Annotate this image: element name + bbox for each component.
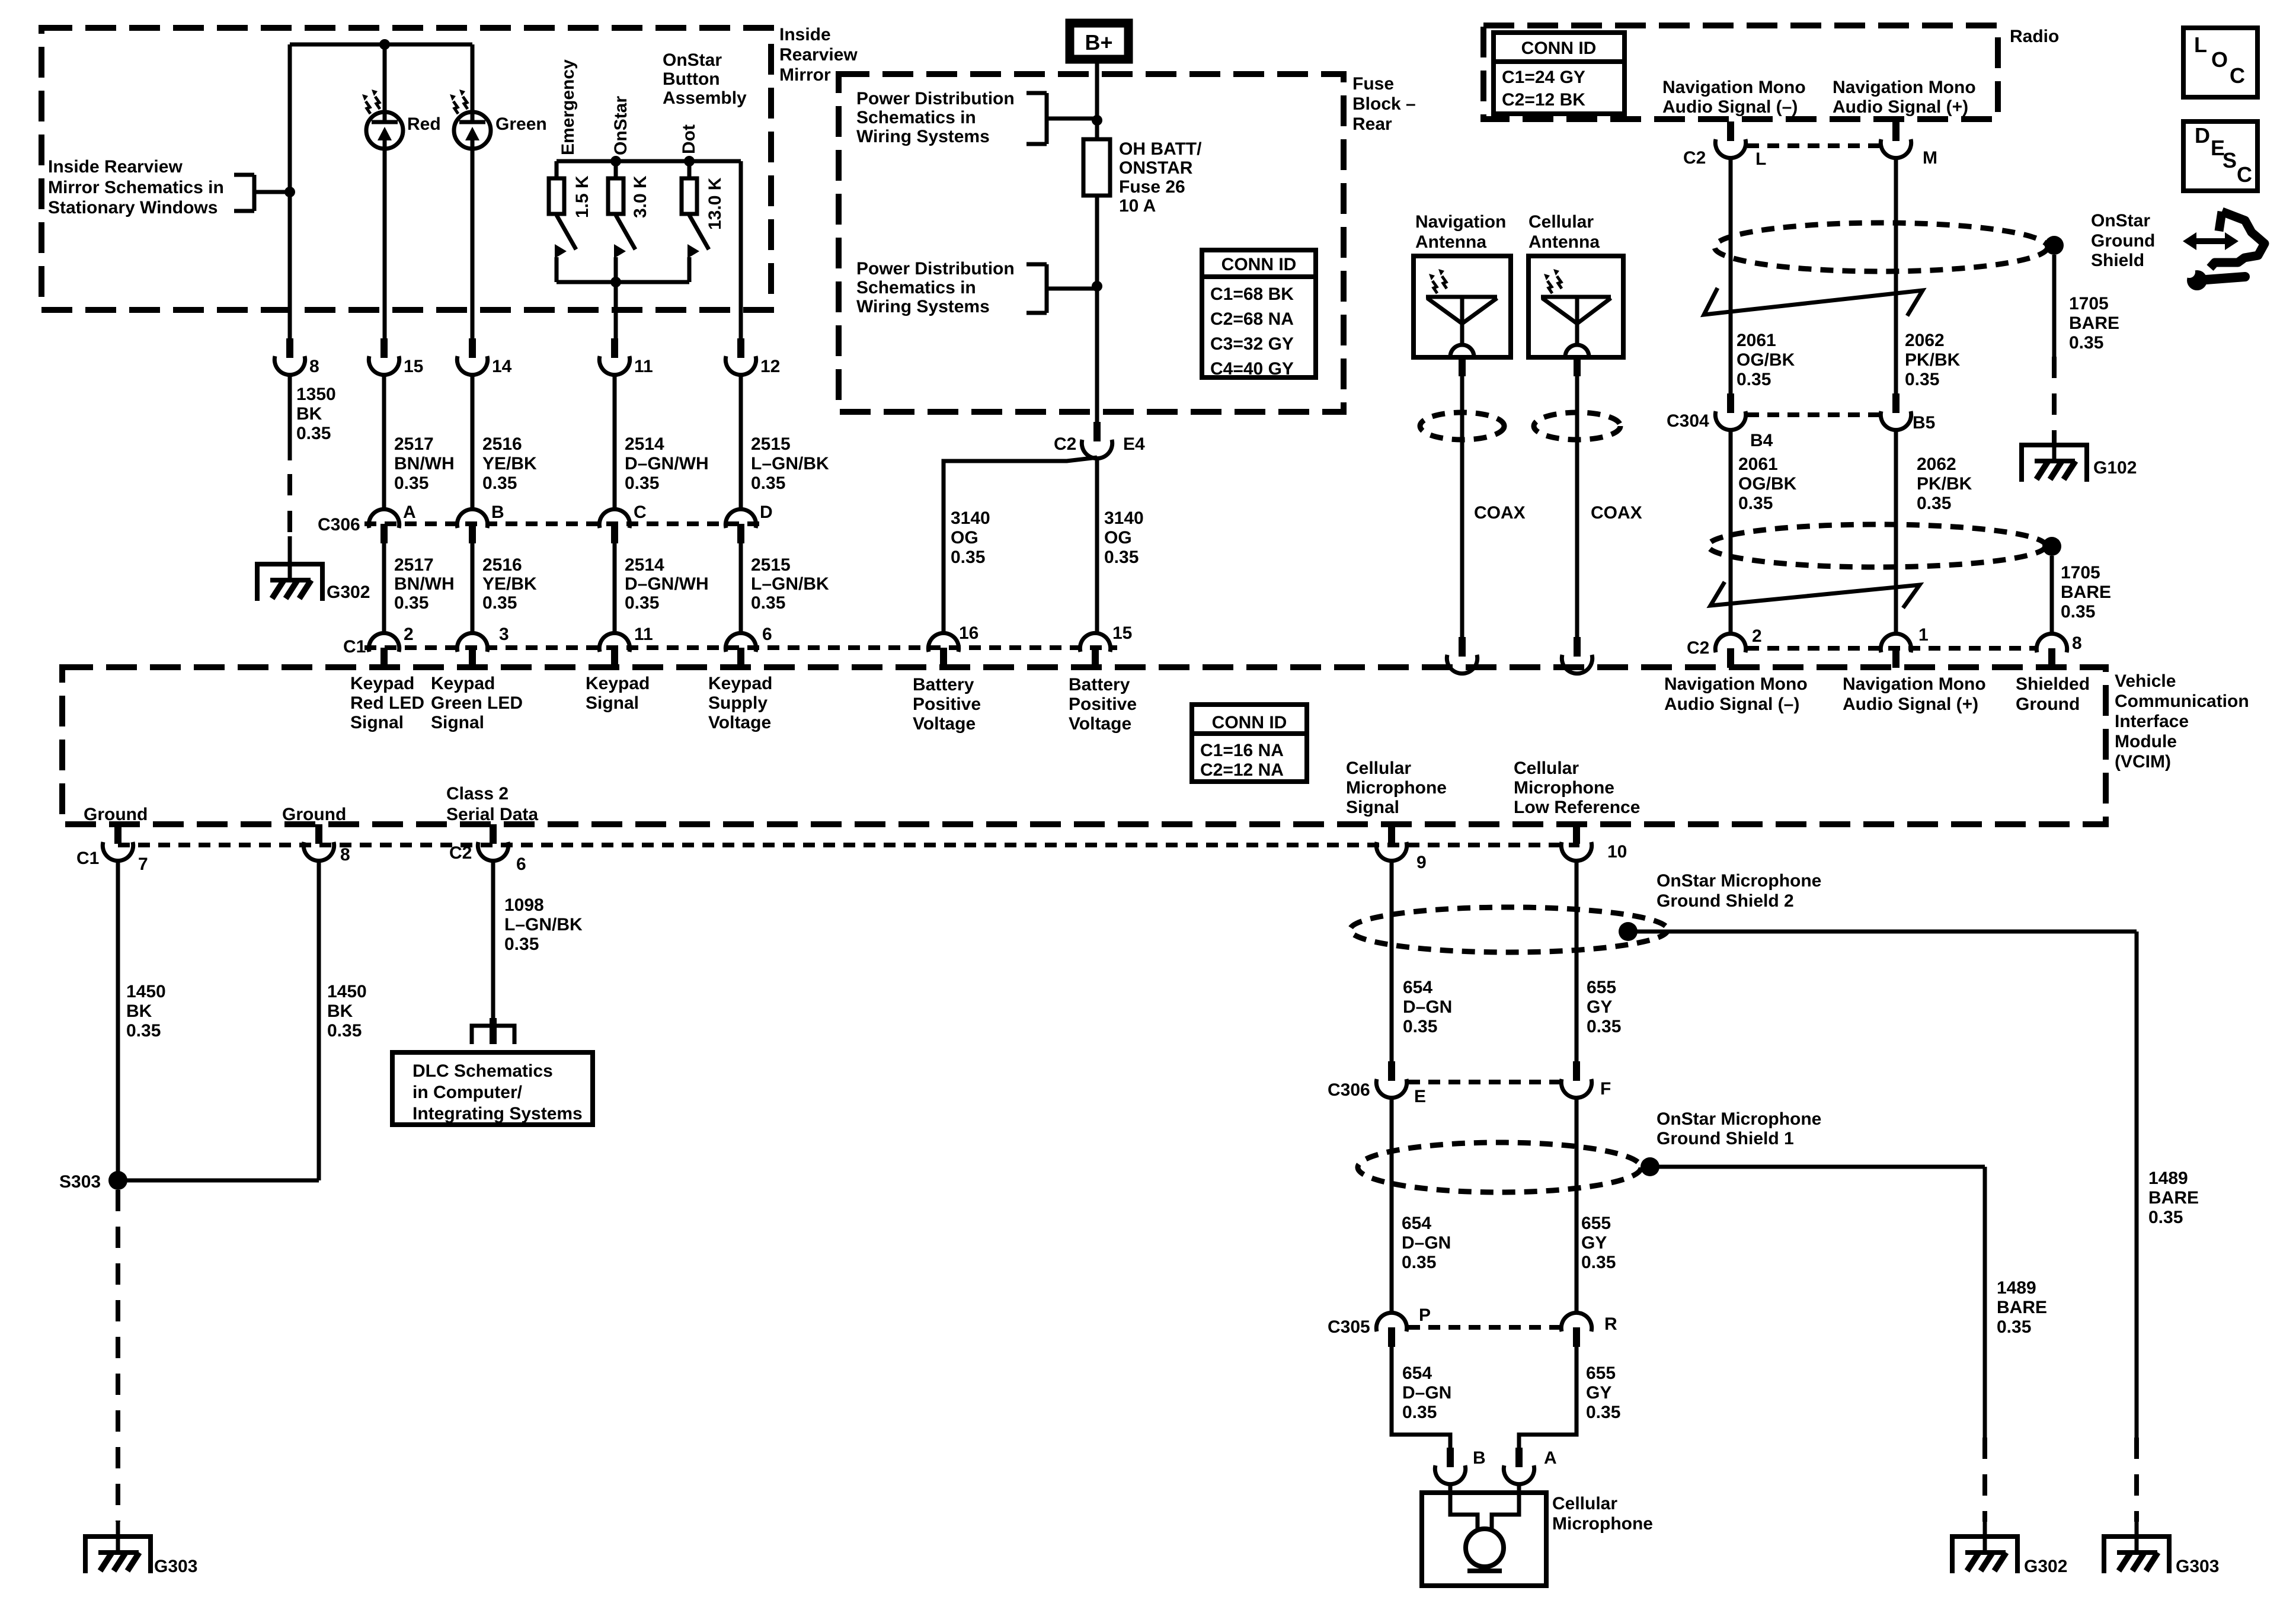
svg-text:L–GN/BK: L–GN/BK [504, 915, 583, 934]
wire: keypad signal return (to pin 8) [288, 44, 292, 338]
svg-text:654: 654 [1402, 1363, 1432, 1383]
svg-text:Ground: Ground [282, 805, 346, 824]
table: CONN ID (fuse block) [1202, 250, 1316, 377]
svg-text:Audio Signal (+): Audio Signal (+) [1843, 694, 1978, 714]
svg-text:BN/WH: BN/WH [394, 574, 455, 594]
svg-text:COAX: COAX [1591, 503, 1642, 523]
svg-text:Vehicle: Vehicle [2115, 671, 2176, 691]
twisted pair symbol (upper) [1704, 288, 1923, 316]
icon: antenna rays (nav) [1429, 269, 1447, 293]
terminal: cell antenna output [1574, 357, 1581, 376]
node: junction below fuse [1092, 281, 1102, 292]
svg-text:0.35: 0.35 [327, 1021, 362, 1041]
svg-text:Assembly: Assembly [663, 88, 747, 108]
svg-text:Ground: Ground [2091, 231, 2155, 251]
svg-text:BK: BK [327, 1001, 353, 1021]
wire 654 D-GN (C306 E to C305 P) [1390, 1098, 1394, 1313]
svg-text:O: O [2211, 47, 2228, 72]
svg-text:Power Distribution: Power Distribution [856, 89, 1015, 108]
svg-text:C: C [2237, 162, 2252, 187]
wire 1098 L-GN/BK (class 2 serial data) [491, 862, 495, 1019]
box: Radio (dashed) [1483, 25, 1998, 119]
wire 655 GY (pin 10 to C306 F) [1575, 861, 1579, 1061]
svg-text:OH BATT/: OH BATT/ [1119, 139, 1202, 159]
svg-text:Shielded: Shielded [2016, 674, 2090, 694]
svg-text:0.35: 0.35 [1581, 1253, 1616, 1272]
svg-text:OG: OG [1104, 528, 1132, 548]
svg-text:1705: 1705 [2069, 294, 2109, 313]
svg-text:Cellular: Cellular [1514, 758, 1579, 778]
svg-text:2515: 2515 [751, 555, 791, 575]
svg-text:0.35: 0.35 [2061, 602, 2095, 622]
svg-text:P: P [1419, 1305, 1431, 1325]
svg-text:2514: 2514 [625, 555, 664, 575]
svg-text:Signal: Signal [1346, 798, 1399, 817]
svg-text:Navigation: Navigation [1415, 212, 1506, 232]
svg-text:3140: 3140 [1104, 508, 1144, 528]
svg-text:BK: BK [296, 404, 322, 424]
svg-text:OnStar Microphone: OnStar Microphone [1657, 871, 1821, 891]
node: shield drain junction (upper) [2045, 236, 2064, 255]
pin B of cellular microphone [1435, 1448, 1465, 1484]
wire 655 GY to microphone pin A [1519, 1347, 1576, 1448]
connector C306 (E,F) dashed line [1408, 1080, 1560, 1084]
svg-text:2514: 2514 [625, 434, 664, 454]
pin 6 below VCIM [478, 824, 508, 861]
svg-text:655: 655 [1581, 1214, 1611, 1233]
antenna: Cellular Antenna box [1528, 256, 1623, 357]
svg-text:Navigation Mono: Navigation Mono [1843, 674, 1986, 694]
wire 1705 BARE drain (dashed) [2052, 357, 2057, 443]
svg-text:Navigation Mono: Navigation Mono [1664, 674, 1808, 694]
svg-text:G102: G102 [2093, 458, 2137, 478]
svg-text:1489: 1489 [1997, 1278, 2036, 1298]
svg-text:Ground Shield 1: Ground Shield 1 [1657, 1129, 1794, 1148]
ground G303 (right) [2104, 1537, 2169, 1573]
svg-text:L: L [1755, 149, 1766, 169]
svg-text:1450: 1450 [327, 982, 367, 1001]
svg-text:C2: C2 [449, 843, 472, 863]
wire segment C306 to VCIM C1 [613, 543, 617, 633]
wire: green LED branch upper [471, 44, 475, 123]
power symbol B+ [1070, 23, 1128, 59]
svg-text:11: 11 [634, 625, 653, 644]
svg-text:M: M [1923, 148, 1937, 168]
box: Inside Rearview Mirror (dashed) [41, 28, 771, 310]
wire 2061 OG/BK radio to C304 [1729, 158, 1733, 393]
node: junction at red LED branch [379, 39, 390, 50]
svg-text:Power Distribution: Power Distribution [856, 259, 1015, 279]
svg-text:3140: 3140 [951, 508, 990, 528]
svg-text:Integrating Systems: Integrating Systems [412, 1104, 583, 1124]
svg-text:1705: 1705 [2061, 563, 2100, 582]
shield ellipse on nav coax [1420, 412, 1504, 440]
wire 654 D-GN (pin 9 to C306 E) [1390, 861, 1394, 1061]
twisted pair symbol (lower) [1710, 582, 1920, 608]
svg-text:655: 655 [1587, 978, 1616, 997]
box: Vehicle Communication Interface Module VCIM (dashed) [62, 667, 2106, 824]
svg-text:BARE: BARE [2061, 582, 2111, 602]
switch: Emergency button [555, 215, 576, 282]
svg-text:C1: C1 [76, 849, 99, 868]
svg-text:Voltage: Voltage [1069, 714, 1131, 734]
svg-text:Audio Signal (+): Audio Signal (+) [1833, 97, 1968, 117]
svg-text:COAX: COAX [1474, 503, 1526, 523]
microphone element [1450, 1493, 1519, 1571]
svg-text:6: 6 [762, 625, 772, 644]
svg-text:Ground: Ground [84, 805, 148, 824]
wire: button assembly bottom bus [557, 280, 689, 284]
wire 655 GY (C306 F to C305 R) [1575, 1098, 1579, 1313]
node: junction OnStar branch [610, 156, 621, 167]
pin P of C305 [1376, 1313, 1406, 1347]
svg-text:2516: 2516 [482, 434, 522, 454]
svg-text:PK/BK: PK/BK [1905, 350, 1961, 370]
svg-text:1.5 K: 1.5 K [573, 175, 592, 218]
svg-text:C306: C306 [318, 515, 360, 534]
connector row C1 of VCIM dashed line [364, 645, 1117, 650]
svg-text:0.35: 0.35 [1737, 370, 1771, 389]
svg-text:Supply: Supply [708, 693, 768, 713]
svg-text:C: C [2230, 63, 2245, 88]
pin 15 (inside rearview mirror connector) [369, 338, 399, 375]
pin E4 of fuse block C2 [1082, 422, 1112, 459]
pin 16 of VCIM C1 [928, 633, 958, 667]
wire: stub into microphone (A) [1517, 1484, 1521, 1493]
pin R of C305 [1561, 1313, 1591, 1347]
pin L of radio C2 [1715, 121, 1745, 158]
pin A of cellular microphone [1504, 1448, 1534, 1484]
resistor 3.0 K (OnStar) [608, 161, 623, 214]
svg-text:0.35: 0.35 [1403, 1017, 1437, 1036]
svg-text:Audio Signal (–): Audio Signal (–) [1664, 694, 1799, 714]
connector C306 (A-D) dashed connector line [364, 521, 760, 526]
svg-text:Shield: Shield [2091, 251, 2144, 270]
svg-text:C: C [634, 502, 647, 522]
svg-text:B+: B+ [1085, 30, 1112, 55]
svg-text:DLC Schematics: DLC Schematics [412, 1061, 553, 1081]
pin A of C306 [369, 509, 399, 543]
wire 1489 BARE (shield 1) vertical [1983, 1167, 1987, 1438]
wire: pin8 ground leg to splice [118, 1179, 319, 1183]
svg-text:Battery: Battery [1069, 675, 1130, 694]
connector C304 dashed line [1747, 412, 1880, 417]
svg-text:Fuse 26: Fuse 26 [1119, 177, 1185, 197]
wire: dashed lead S303 to G303 [116, 1190, 120, 1522]
svg-text:0.35: 0.35 [2148, 1208, 2183, 1227]
coax wire: cellular antenna [1575, 376, 1579, 637]
wire: red LED branch lower [383, 139, 387, 338]
svg-text:2516: 2516 [482, 555, 522, 575]
svg-text:2517: 2517 [394, 555, 434, 575]
svg-text:B: B [491, 502, 504, 522]
svg-text:D–GN/WH: D–GN/WH [625, 574, 709, 594]
wire 2062 PK/BK C304 to VCIM [1894, 430, 1898, 635]
svg-text:1450: 1450 [126, 982, 166, 1001]
svg-text:Green LED: Green LED [431, 693, 523, 713]
svg-text:0.35: 0.35 [482, 473, 517, 493]
svg-text:0.35: 0.35 [126, 1021, 161, 1041]
svg-text:OnStar: OnStar [663, 50, 722, 70]
svg-text:C1=68 BK: C1=68 BK [1210, 284, 1294, 304]
svg-text:D–GN/WH: D–GN/WH [625, 454, 709, 473]
fuse 26 OH BATT/ONSTAR 10 A [1083, 139, 1110, 196]
svg-text:12: 12 [760, 357, 780, 376]
resistor 13.0 K (Dot) [682, 161, 697, 214]
pin: nav coax into VCIM [1447, 637, 1477, 674]
svg-text:Antenna: Antenna [1415, 232, 1486, 252]
svg-text:Cellular: Cellular [1552, 1494, 1617, 1513]
svg-text:Class 2: Class 2 [446, 784, 509, 804]
svg-text:Cellular: Cellular [1528, 212, 1594, 232]
svg-text:YE/BK: YE/BK [482, 574, 537, 594]
svg-text:CONN ID: CONN ID [1221, 255, 1297, 274]
svg-text:Battery: Battery [913, 675, 974, 694]
svg-text:15: 15 [1112, 623, 1132, 643]
wire: keypad signal to pin 11 [614, 282, 618, 338]
wire 2061 OG/BK C304 to VCIM [1729, 430, 1733, 635]
pin 2 of VCIM C2 [1715, 633, 1745, 668]
svg-text:1350: 1350 [296, 385, 336, 404]
svg-text:OG/BK: OG/BK [1737, 350, 1795, 370]
svg-text:2: 2 [404, 625, 414, 644]
box: Fuse Block - Rear (dashed) [839, 74, 1344, 412]
svg-text:C2: C2 [1054, 434, 1076, 454]
wire: green LED branch lower [471, 139, 475, 338]
svg-text:Positive: Positive [1069, 694, 1137, 714]
wire 1489 BARE (shield 2) horizontal [1628, 930, 2137, 934]
svg-text:Inside Rearview: Inside Rearview [48, 157, 183, 177]
wire 2062 PK/BK radio to C304 [1894, 158, 1898, 393]
svg-text:D: D [2195, 123, 2210, 148]
svg-text:BN/WH: BN/WH [394, 454, 455, 473]
svg-text:1: 1 [1918, 625, 1929, 645]
ground G302 (mirror) [257, 564, 322, 601]
wire 1450 BK (pin 7) [116, 861, 120, 1180]
svg-text:E4: E4 [1123, 434, 1145, 454]
svg-text:0.35: 0.35 [1738, 494, 1773, 513]
svg-text:D: D [760, 502, 773, 522]
svg-text:8: 8 [2072, 633, 2082, 653]
svg-text:Module: Module [2115, 732, 2177, 751]
svg-text:C2=12 NA: C2=12 NA [1200, 760, 1284, 780]
svg-text:Stationary Windows: Stationary Windows [48, 198, 218, 217]
svg-text:C1=16 NA: C1=16 NA [1200, 741, 1284, 760]
table: CONN ID (VCIM) [1192, 705, 1307, 782]
svg-text:Fuse: Fuse [1352, 74, 1394, 94]
svg-text:Signal: Signal [586, 693, 639, 713]
svg-text:R: R [1604, 1314, 1617, 1334]
pin 6 of VCIM C1 [725, 633, 756, 667]
pin 9 below VCIM [1376, 824, 1406, 861]
svg-text:G302: G302 [2024, 1557, 2067, 1576]
svg-text:Keypad: Keypad [350, 674, 414, 693]
svg-text:B4: B4 [1750, 431, 1773, 450]
wire 1350 BK segment below pin 8 [288, 375, 292, 460]
bracket: power distribution lower [1027, 264, 1097, 313]
svg-text:Ground Shield 2: Ground Shield 2 [1657, 891, 1794, 911]
wire: mirror internal top bus [290, 43, 472, 47]
svg-text:Keypad: Keypad [586, 674, 650, 693]
svg-text:0.35: 0.35 [394, 473, 428, 493]
wire: B+ feed through fuse [1095, 63, 1099, 422]
svg-text:BARE: BARE [2069, 313, 2119, 333]
svg-text:D–GN: D–GN [1402, 1383, 1451, 1403]
svg-text:C304: C304 [1667, 411, 1709, 431]
svg-text:Block –: Block – [1352, 94, 1416, 114]
wire: dashed lead to G302 [287, 474, 292, 536]
wire: stem into G302 (right) [1983, 1522, 1987, 1553]
svg-text:Schematics in: Schematics in [856, 108, 976, 127]
svg-text:7: 7 [138, 854, 148, 874]
svg-text:Red: Red [407, 114, 441, 134]
connector row C2 of VCIM dashed line [1747, 646, 2035, 651]
wire 3140 OG branch to VCIM pin 16 [944, 457, 1097, 633]
svg-text:655: 655 [1586, 1363, 1616, 1383]
wire: red LED branch upper [383, 44, 387, 123]
pin 2 of VCIM C1 [369, 633, 399, 667]
svg-text:2515: 2515 [751, 434, 791, 454]
wire segment to C306 [471, 375, 475, 509]
svg-text:D–GN: D–GN [1402, 1233, 1451, 1253]
shield ellipse on cell coax [1534, 412, 1620, 440]
pin 8 below VCIM [303, 824, 334, 861]
node: shield drain junction (lower) [2042, 537, 2061, 556]
svg-text:0.35: 0.35 [1402, 1253, 1436, 1272]
box: Cellular Microphone [1422, 1493, 1546, 1586]
pin 11 (inside rearview mirror connector) [599, 338, 629, 375]
icon: DESC box [2183, 121, 2257, 191]
svg-text:6: 6 [516, 854, 526, 874]
svg-text:L–GN/BK: L–GN/BK [751, 454, 829, 473]
wire 1489 BARE (shield 1) horizontal [1650, 1165, 1985, 1169]
svg-text:0.35: 0.35 [751, 473, 785, 493]
icon: LOC box [2183, 28, 2257, 97]
svg-text:L: L [2194, 33, 2207, 57]
node: junction on keypad red LED feed wire [284, 187, 295, 197]
svg-text:654: 654 [1403, 978, 1432, 997]
wire: stub into microphone (B) [1448, 1484, 1453, 1493]
svg-text:B5: B5 [1913, 413, 1935, 433]
svg-text:2517: 2517 [394, 434, 434, 454]
pin 8 of VCIM C2 [2036, 633, 2067, 668]
pin 14 (inside rearview mirror connector) [457, 338, 487, 375]
svg-text:0.35: 0.35 [504, 934, 539, 954]
icon: LED light rays (green) [450, 89, 468, 114]
svg-text:Radio: Radio [2010, 27, 2059, 46]
svg-text:G302: G302 [327, 582, 370, 602]
wire segment C306 to VCIM C1 [471, 543, 475, 633]
svg-text:2062: 2062 [1905, 331, 1945, 350]
svg-text:13.0 K: 13.0 K [705, 177, 725, 230]
svg-text:Schematics in: Schematics in [856, 278, 976, 297]
svg-text:0.35: 0.35 [482, 593, 517, 613]
svg-text:C2=12 BK: C2=12 BK [1502, 90, 1585, 110]
connector C2 of radio dashed line [1747, 143, 1879, 148]
wire: dashed lead to G303 (right) [2134, 1438, 2139, 1522]
svg-text:8: 8 [340, 845, 350, 865]
shield ellipse: OnStar microphone ground shield 2 [1350, 907, 1668, 952]
svg-text:G303: G303 [2176, 1557, 2219, 1576]
pin 3 of VCIM C1 [457, 633, 487, 667]
node: junction above fuse [1092, 115, 1102, 126]
svg-text:Rear: Rear [1352, 114, 1392, 134]
svg-text:Button: Button [663, 69, 720, 89]
svg-text:Dot: Dot [679, 124, 699, 154]
svg-text:BARE: BARE [1997, 1298, 2047, 1317]
svg-text:0.35: 0.35 [1587, 1017, 1621, 1036]
wire segment to C306 [613, 375, 617, 509]
svg-text:Rearview: Rearview [779, 45, 858, 65]
svg-text:Red LED: Red LED [350, 693, 424, 713]
icon: antenna rays (cell) [1544, 269, 1562, 293]
svg-text:Keypad: Keypad [708, 674, 772, 693]
wire 3140 OG to VCIM pin 15 [1095, 459, 1099, 633]
svg-text:Communication: Communication [2115, 692, 2249, 711]
svg-text:2062: 2062 [1917, 454, 1956, 474]
connector C305 dashed line [1408, 1325, 1560, 1330]
wire 1450 BK (pin 8) [317, 861, 321, 1180]
resistor 1.5 K (Emergency) [549, 161, 564, 214]
svg-text:2061: 2061 [1737, 331, 1776, 350]
svg-text:C2: C2 [1683, 148, 1706, 168]
svg-text:Voltage: Voltage [913, 714, 976, 734]
svg-text:Emergency: Emergency [558, 59, 578, 155]
svg-text:1489: 1489 [2148, 1169, 2188, 1188]
pin 10 below VCIM [1561, 824, 1591, 861]
svg-text:G303: G303 [154, 1557, 197, 1576]
LED: Red keypad LED [366, 112, 403, 149]
pin 15 of VCIM C1 [1080, 633, 1110, 667]
svg-text:0.35: 0.35 [625, 593, 659, 613]
icon: LED light rays (red) [362, 89, 380, 114]
wire: dashed lead to G302 (right) [1982, 1438, 1987, 1522]
svg-text:GY: GY [1586, 1383, 1611, 1403]
shield ellipse: OnStar ground shield (upper) [1715, 223, 2048, 271]
svg-text:2: 2 [1752, 626, 1762, 646]
svg-text:0.35: 0.35 [625, 473, 659, 493]
svg-text:Ground: Ground [2016, 694, 2080, 714]
svg-text:Voltage: Voltage [708, 713, 771, 732]
wire segment to C306 [739, 375, 743, 509]
svg-text:D–GN: D–GN [1403, 997, 1452, 1017]
wire: button assembly top bus [557, 159, 741, 164]
svg-text:B: B [1473, 1448, 1486, 1468]
pin 12 (inside rearview mirror connector) [725, 338, 756, 375]
pin D of C306 [725, 509, 756, 543]
svg-text:CONN ID: CONN ID [1212, 713, 1287, 732]
table: CONN ID (radio) [1494, 33, 1625, 114]
svg-text:Positive: Positive [913, 694, 981, 714]
svg-text:BARE: BARE [2148, 1188, 2199, 1208]
bracket to mirror schematics note [234, 175, 290, 211]
wire 1489 BARE (shield 2) vertical [2135, 932, 2139, 1438]
pin 7 below VCIM [103, 824, 133, 861]
svg-text:S303: S303 [59, 1172, 101, 1192]
svg-text:15: 15 [404, 357, 423, 376]
svg-text:Audio Signal (–): Audio Signal (–) [1662, 97, 1798, 117]
svg-text:CONN ID: CONN ID [1521, 39, 1597, 58]
pin 11 of VCIM C1 [599, 633, 629, 667]
ground G303 (left) [85, 1537, 151, 1573]
svg-text:0.35: 0.35 [1905, 370, 1939, 389]
splice S303 [108, 1171, 127, 1190]
pin M of radio C2 [1881, 121, 1911, 158]
svg-text:Interface: Interface [2115, 712, 2189, 731]
svg-text:9: 9 [1416, 853, 1427, 872]
LED: Green keypad LED [454, 112, 491, 149]
svg-text:Keypad: Keypad [431, 674, 495, 693]
